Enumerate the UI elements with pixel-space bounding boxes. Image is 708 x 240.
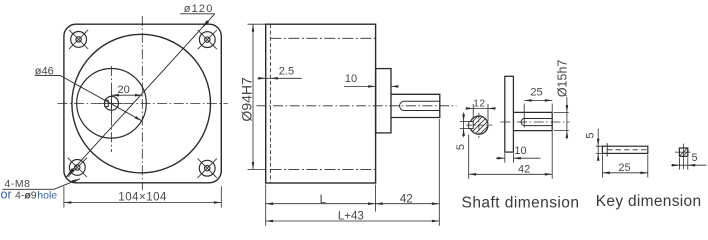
svg-text:5: 5 bbox=[692, 152, 698, 164]
dimension 42 label bbox=[400, 194, 413, 206]
title Key dimension bbox=[596, 193, 702, 210]
svg-text:20: 20 bbox=[118, 84, 130, 96]
hidden line flange plate 2.5 bbox=[269, 24, 271, 183]
keyway notch in shaft section bbox=[469, 122, 474, 129]
mounting hole bottom-right (M8) with diagonal centerlines bbox=[198, 159, 217, 178]
key rounded-end tangent line bbox=[606, 143, 608, 156]
vertical centerline (flange square) bbox=[141, 16, 143, 190]
shaft centerline (side view) bbox=[257, 105, 457, 107]
dimension 2.5 label bbox=[279, 65, 294, 77]
leader 4-M8 to bottom-left hole bbox=[3, 177, 82, 189]
dimension L+43 label bbox=[338, 210, 364, 222]
svg-text:25: 25 bbox=[618, 162, 630, 174]
svg-text:L+43: L+43 bbox=[338, 210, 364, 222]
svg-text:or: or bbox=[1, 188, 12, 202]
dimension 10 (shaft detail) line bbox=[496, 157, 541, 160]
output boss (side view) bbox=[376, 69, 391, 133]
vertical centerline (shaft axis) bbox=[111, 66, 113, 152]
label 4-M8 bbox=[5, 178, 31, 190]
dimension 104x104 extension lines bbox=[64, 186, 221, 207]
dimension ø94H7 label (rotated) bbox=[239, 77, 255, 122]
keyway notch in shaft hole bbox=[105, 100, 109, 106]
key side view hidden centerline bbox=[607, 149, 647, 151]
horizontal centerline (flange) bbox=[58, 102, 228, 104]
label ø46 with underline bbox=[35, 66, 60, 78]
dimension 5 (key height) extension lines bbox=[596, 146, 604, 153]
dimension 104x104 label bbox=[118, 191, 167, 203]
dimension L label bbox=[320, 194, 327, 206]
label ø120 with underline bbox=[180, 3, 215, 15]
shaft detail centerline bbox=[501, 121, 570, 123]
dimension ø94H7 extension lines bbox=[248, 24, 268, 169]
gearbox body outline (side view) bbox=[266, 24, 376, 183]
svg-text:10: 10 bbox=[514, 145, 526, 157]
svg-text:5: 5 bbox=[455, 144, 467, 150]
shaft section centerlines bbox=[466, 113, 492, 138]
hidden line ø94 top bbox=[270, 37, 375, 39]
bolt-circle ø120 dimension line (diagonal) bbox=[65, 14, 215, 178]
dimension 12 label bbox=[473, 99, 485, 110]
dimension ø15h7 line bbox=[566, 97, 569, 139]
svg-text:4-ø9: 4-ø9 bbox=[15, 189, 37, 201]
title Shaft dimension bbox=[462, 195, 580, 212]
svg-text:hole: hole bbox=[37, 189, 57, 201]
shaft detail outline bbox=[513, 112, 552, 130]
shaft center crosshair bbox=[100, 92, 124, 116]
dimension 10 (shaft detail) label bbox=[514, 145, 526, 157]
dimension 5 (key width) extension lines bbox=[679, 158, 687, 170]
svg-text:Key dimension: Key dimension bbox=[596, 193, 702, 210]
dimension L+43 line bbox=[266, 220, 440, 223]
flange square outline 104x104 bbox=[64, 24, 221, 183]
shaft cross-section circle ø15 bbox=[470, 116, 488, 134]
dimension 10 (shaft detail) extension lines bbox=[505, 153, 514, 163]
dimension 42 (shaft detail) label bbox=[518, 163, 530, 175]
dimension 25 (keyway length) line bbox=[524, 99, 552, 102]
key end view square with hatching bbox=[679, 148, 688, 157]
boss (shaft detail) bbox=[505, 76, 514, 152]
dimension 20 label bbox=[118, 84, 130, 96]
dimension 25 label bbox=[530, 87, 542, 99]
svg-text:Ø15h7: Ø15h7 bbox=[556, 60, 570, 98]
dimension 5 (key height) label (rotated) bbox=[584, 133, 596, 139]
shaft detail keyway slot bbox=[521, 119, 552, 126]
output shaft (side view) bbox=[391, 94, 440, 117]
leader line ø46 through shaft center bbox=[60, 75, 143, 122]
dimension 5 (key width) line bbox=[671, 164, 707, 167]
svg-text:5: 5 bbox=[584, 133, 596, 139]
dimension ø94H7 line bbox=[252, 24, 255, 169]
dimension 2.5 line bbox=[258, 77, 303, 80]
svg-text:42: 42 bbox=[518, 163, 530, 175]
shaft detail edge extension lines bbox=[554, 112, 569, 130]
shaft keyway slot (side view) bbox=[400, 101, 440, 110]
svg-text:Ø94H7: Ø94H7 bbox=[239, 77, 255, 122]
svg-text:25: 25 bbox=[530, 87, 542, 99]
dimension 5 (keyway) label (rotated) bbox=[455, 144, 467, 150]
mounting hole bottom-left (M8) with diagonal centerlines bbox=[68, 158, 87, 177]
dimension 20 (shaft offset) line bbox=[112, 94, 143, 97]
svg-text:ø120: ø120 bbox=[184, 3, 214, 15]
extension line keyway/shaft end vertical bbox=[524, 104, 552, 179]
pilot circle ø94 (flange spigot) bbox=[72, 34, 211, 173]
dimension ø15h7 label (rotated) bbox=[556, 60, 570, 98]
dimension 25 (key length) extension lines bbox=[602, 155, 647, 178]
key side view outline bbox=[602, 146, 647, 153]
hidden line ø94 bottom bbox=[270, 168, 375, 170]
dimension 25 (key length) label bbox=[618, 162, 630, 174]
svg-text:10: 10 bbox=[345, 73, 357, 85]
output shaft hole ø15 with keyway (front view) bbox=[105, 96, 119, 110]
mounting hole top-left (M8) with diagonal centerlines bbox=[69, 30, 88, 49]
dimension 12 line bbox=[466, 107, 496, 110]
dimension 25 (key length) line bbox=[602, 172, 647, 175]
svg-text:104×104: 104×104 bbox=[118, 191, 167, 203]
svg-text:Shaft dimension: Shaft dimension bbox=[462, 195, 580, 212]
dimension 5 (key width) label bbox=[692, 152, 698, 164]
extension line from section circle bbox=[468, 135, 470, 179]
key end view centerlines bbox=[675, 144, 691, 170]
extension lines bottom (middle view) bbox=[266, 119, 440, 226]
svg-text:2.5: 2.5 bbox=[279, 65, 294, 77]
mounting hole top-right (M8) with diagonal centerlines bbox=[198, 30, 217, 49]
dimension 104x104 line bbox=[64, 201, 221, 204]
shaft section circle hatching bbox=[462, 98, 496, 152]
dimension 10 (boss length) line bbox=[344, 85, 399, 88]
svg-text:L: L bbox=[320, 194, 327, 206]
svg-text:12: 12 bbox=[473, 99, 485, 110]
boss circle ø46 bbox=[77, 69, 147, 139]
dimension 5 (keyway) extension lines bbox=[460, 122, 471, 129]
dimension 5 (keyway) line bbox=[462, 113, 465, 138]
dimension L line bbox=[266, 202, 376, 205]
label or 4-ø9 hole bbox=[1, 188, 58, 202]
dimension 12 extension lines bbox=[473, 104, 488, 121]
svg-text:42: 42 bbox=[400, 194, 413, 206]
dimension 42 line bbox=[375, 202, 439, 205]
dimension 42 (shaft detail) line bbox=[469, 173, 553, 176]
dimension 10 label bbox=[345, 73, 357, 85]
dimension 5 (key height) line bbox=[597, 129, 600, 161]
